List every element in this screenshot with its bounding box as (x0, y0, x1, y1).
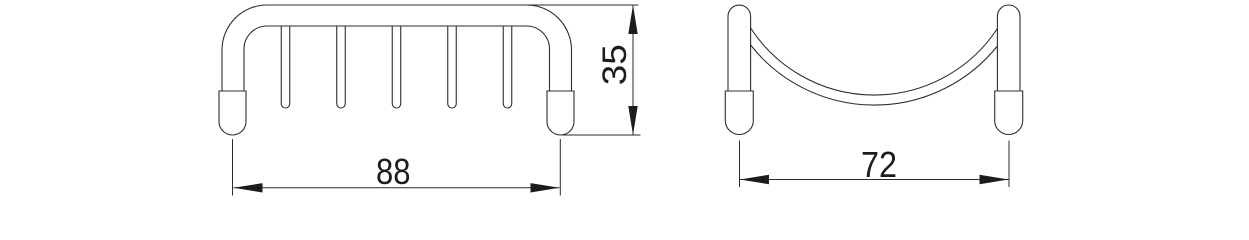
side view: left foot cap (725, 91, 753, 135)
dim 35: bottom extension line (562, 134, 641, 136)
side view: sling lower curve (751, 45, 998, 105)
dim 88: left extension line (232, 139, 234, 196)
dim 72: right arrow (980, 175, 1009, 184)
front view: left foot cap (219, 91, 246, 135)
front view: basket frame outer outline (222, 5, 572, 91)
dim 88: left arrow (234, 183, 263, 192)
svg-text:35: 35 (596, 44, 634, 85)
svg-text:88: 88 (376, 151, 411, 192)
front view: prong 4 (448, 26, 457, 108)
front view: right foot cap (547, 91, 574, 135)
side view: sling upper curve (751, 28, 998, 95)
dim 72: right extension line (1008, 141, 1010, 188)
dim 72: dimension line (740, 179, 1009, 181)
dim 72: left extension line (739, 141, 741, 188)
front view: prong 2 (337, 26, 346, 108)
dim 35: top arrow (628, 5, 637, 34)
dim 35: bottom arrow (628, 106, 637, 135)
front view: basket frame inner outline (244, 26, 550, 91)
dim 35: dimension line (632, 5, 634, 135)
dim 88: dimension line (234, 187, 560, 189)
side view: right post (997, 5, 1020, 91)
dim 72: left arrow (740, 175, 769, 184)
front view: prong 1 (281, 26, 290, 108)
side view: left post (728, 5, 751, 91)
dim 88: right arrow (531, 183, 560, 192)
svg-text:72: 72 (861, 144, 897, 185)
side view: right foot cap (995, 91, 1023, 135)
dim 35: top extension line (527, 4, 639, 6)
front view: prong 5 (503, 26, 512, 108)
front view: prong 3 (392, 26, 401, 108)
dim 88: right extension line (559, 139, 561, 196)
